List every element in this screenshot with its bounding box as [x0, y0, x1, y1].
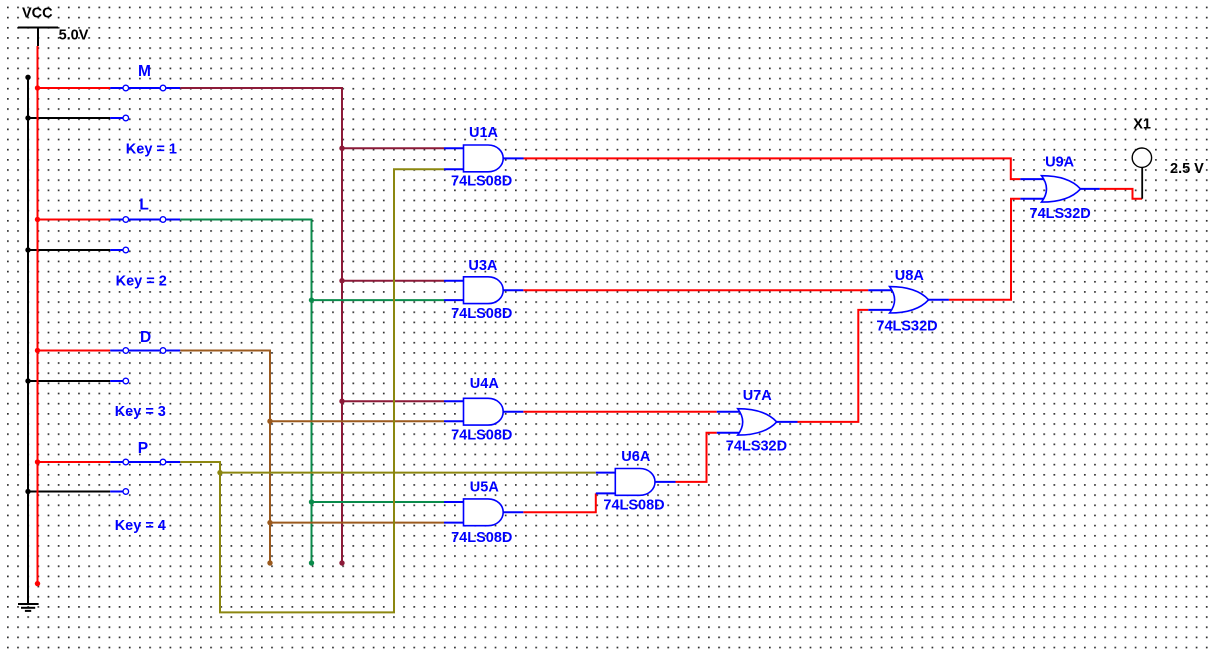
- junction VCC rail end: [35, 581, 40, 586]
- svg-text:Key = 3: Key = 3: [115, 404, 166, 420]
- svg-text:P: P: [138, 440, 148, 457]
- wire VCC rail: [38, 46, 111, 584]
- svg-text:U5A: U5A: [470, 479, 500, 495]
- junction L U5A: [309, 499, 314, 504]
- wire ground rail: [28, 77, 110, 603]
- junction VCC L: [35, 217, 40, 222]
- svg-text:74LS32D: 74LS32D: [726, 439, 787, 455]
- svg-text:74LS08D: 74LS08D: [451, 306, 512, 322]
- junction D end: [267, 560, 272, 565]
- switch M: [110, 85, 180, 121]
- junction D U4A: [267, 419, 272, 424]
- wire net M: [180, 88, 444, 563]
- svg-text:Key = 1: Key = 1: [126, 142, 177, 158]
- wire net D: [180, 351, 444, 564]
- svg-text:VCC: VCC: [22, 6, 53, 22]
- wire U1A output: [524, 158, 1021, 179]
- junction L U3A: [309, 297, 314, 302]
- junction ground M: [25, 115, 30, 120]
- junction ground rail top: [25, 75, 30, 80]
- svg-text:M: M: [138, 63, 151, 80]
- switch P: [110, 459, 180, 494]
- junction ground D: [25, 378, 30, 383]
- svg-text:U4A: U4A: [470, 376, 500, 392]
- wire U5A output: [523, 493, 596, 512]
- or-gate U9A: [1020, 176, 1099, 202]
- wire U7A output: [798, 310, 869, 422]
- junction P: [217, 470, 222, 475]
- and-gate U3A: [444, 277, 523, 304]
- svg-text:U7A: U7A: [743, 388, 773, 404]
- svg-text:U6A: U6A: [621, 449, 651, 465]
- probe X1: [1132, 148, 1151, 199]
- svg-text:U9A: U9A: [1045, 154, 1075, 170]
- and-gate U6A: [596, 469, 676, 496]
- wire U8A output: [949, 199, 1020, 300]
- svg-text:U1A: U1A: [469, 125, 499, 141]
- svg-text:74LS08D: 74LS08D: [451, 428, 512, 444]
- junction M U3A: [339, 278, 344, 283]
- and-gate U1A: [444, 145, 524, 172]
- svg-text:Key = 2: Key = 2: [116, 273, 167, 289]
- svg-text:74LS08D: 74LS08D: [451, 530, 512, 546]
- svg-text:D: D: [140, 329, 151, 346]
- junction M U1A: [339, 146, 344, 151]
- junction M end: [339, 560, 344, 565]
- junction VCC D: [35, 348, 40, 353]
- junction ground L: [25, 247, 30, 252]
- junction VCC M: [35, 85, 40, 90]
- ground: [18, 604, 39, 611]
- svg-text:2.5 V: 2.5 V: [1170, 161, 1204, 177]
- svg-text:74LS08D: 74LS08D: [603, 498, 664, 514]
- junction M U4A: [339, 399, 344, 404]
- svg-text:74LS08D: 74LS08D: [451, 174, 512, 190]
- wire U3A output: [523, 289, 868, 291]
- svg-text:U3A: U3A: [468, 258, 498, 274]
- power VCC: [18, 28, 58, 47]
- wire U6A output: [676, 433, 717, 482]
- junction D U5A: [267, 520, 272, 525]
- wire net P: [180, 169, 596, 612]
- wire U9A output: [1100, 189, 1143, 199]
- svg-text:U8A: U8A: [895, 268, 925, 284]
- and-gate U4A: [444, 398, 523, 425]
- switch D: [110, 348, 180, 384]
- wire net L: [180, 220, 444, 564]
- junction L end: [309, 560, 314, 565]
- svg-text:74LS32D: 74LS32D: [876, 319, 937, 335]
- svg-text:Key = 4: Key = 4: [115, 518, 166, 534]
- junction VCC P: [35, 459, 40, 464]
- svg-text:5.0V: 5.0V: [59, 28, 89, 44]
- junction ground P: [25, 489, 30, 494]
- and-gate U5A: [444, 499, 523, 526]
- wire U4A output: [523, 411, 717, 413]
- or-gate U8A: [868, 287, 949, 313]
- or-gate U7A: [717, 409, 798, 435]
- svg-text:L: L: [139, 197, 148, 214]
- svg-text:X1: X1: [1133, 116, 1151, 132]
- svg-text:74LS32D: 74LS32D: [1030, 206, 1091, 222]
- switch L: [110, 217, 180, 253]
